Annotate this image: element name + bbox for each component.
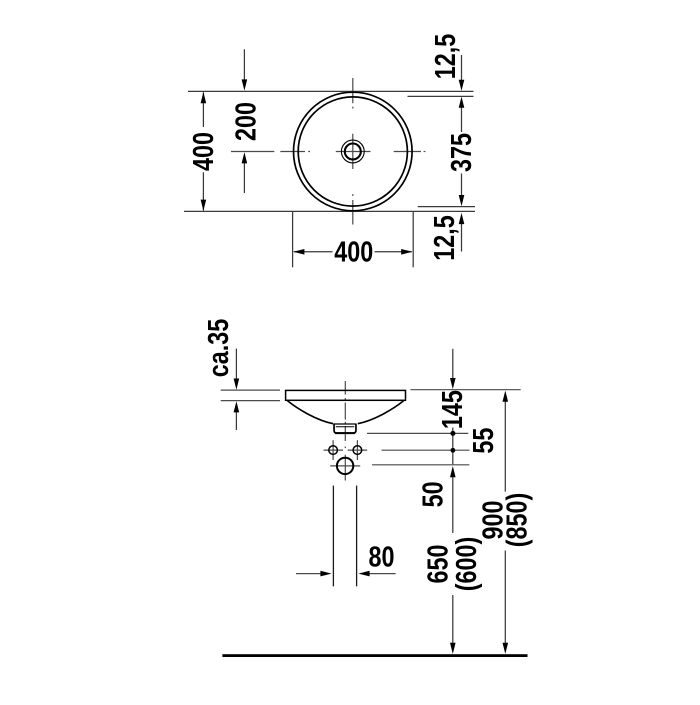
svg-text:(850): (850) bbox=[500, 493, 533, 548]
svg-text:50: 50 bbox=[416, 481, 449, 507]
svg-text:200: 200 bbox=[229, 102, 262, 141]
svg-text:55: 55 bbox=[467, 428, 500, 454]
svg-text:375: 375 bbox=[445, 133, 478, 172]
svg-text:400: 400 bbox=[187, 132, 220, 171]
svg-text:(600): (600) bbox=[450, 537, 483, 592]
svg-text:145: 145 bbox=[436, 390, 469, 429]
svg-text:12,5: 12,5 bbox=[429, 34, 462, 79]
svg-text:400: 400 bbox=[334, 235, 373, 268]
svg-text:12,5: 12,5 bbox=[428, 215, 461, 260]
svg-text:80: 80 bbox=[369, 540, 395, 573]
svg-text:ca.35: ca.35 bbox=[202, 319, 235, 377]
